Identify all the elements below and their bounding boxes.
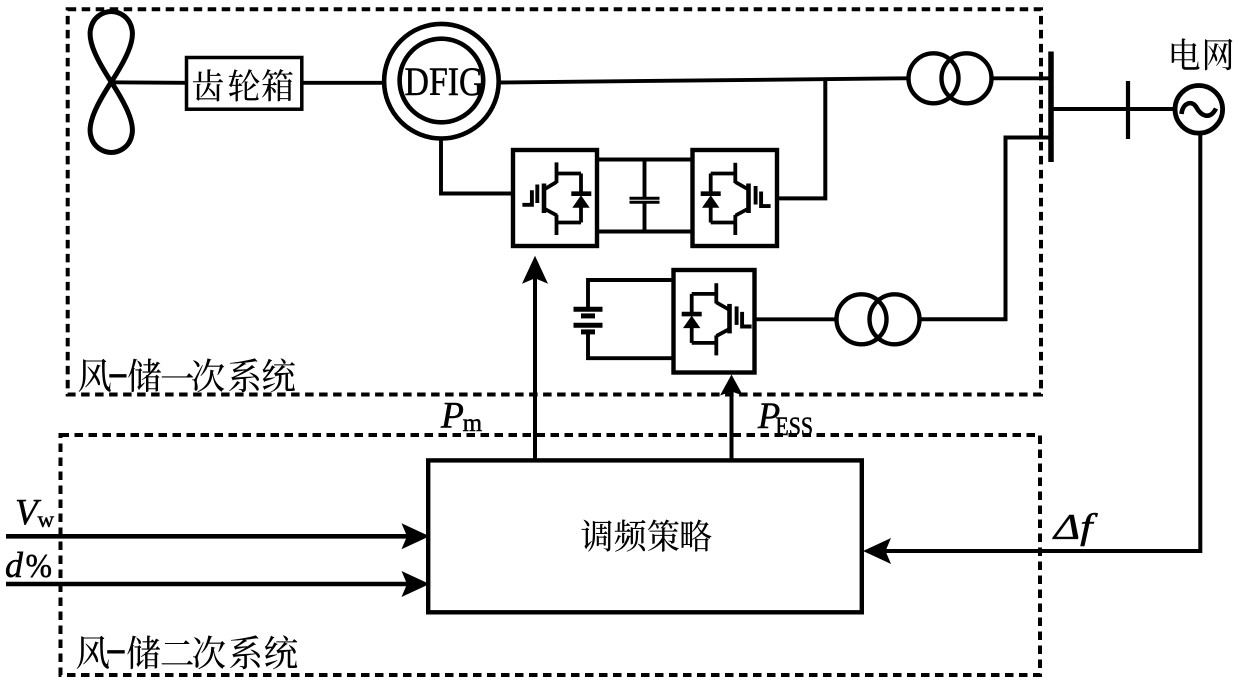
svg-text:w: w [38, 507, 55, 532]
wire V_w input arrow [6, 534, 410, 539]
converter GSC box [693, 150, 778, 246]
wind turbine blades [90, 12, 132, 83]
wire gearbox to DFIG [302, 81, 384, 85]
svg-text:d: d [5, 545, 24, 585]
wire d% input arrow [6, 582, 410, 587]
wire DFIG stator to transformer (main line) [499, 78, 907, 82]
wire Pm arrow [533, 260, 537, 461]
wire turbine shaft to gearbox [111, 80, 186, 84]
wire grid down to delta-f [884, 133, 1200, 551]
top dashed box 风-储一次系统 border [68, 9, 1041, 394]
wire ESS converter to T2 [755, 317, 838, 321]
IGBT in RSC [522, 162, 591, 235]
svg-text:ESS: ESS [775, 412, 813, 441]
svg-text:%: % [26, 548, 53, 585]
wire DC link top [597, 158, 693, 162]
breaker tick [1126, 81, 1130, 139]
dash in 风-储二次系统 [107, 650, 125, 653]
wire T2 up to bus [920, 138, 1050, 320]
battery wire bottom [588, 333, 674, 358]
bottom dashed box 风-储二次系统 border [61, 435, 1041, 675]
generator DFIG inner circle [400, 39, 484, 123]
wire DC link bottom [597, 230, 693, 234]
svg-text:Δf: Δf [1052, 507, 1099, 547]
gearbox box 齿轮箱 [187, 58, 302, 110]
label 齿轮箱 [193, 69, 293, 101]
label 电网 [1172, 38, 1233, 70]
transformer T2 circle B [870, 294, 920, 344]
wire GSC output [777, 79, 825, 198]
wire T1 to bus [992, 76, 1052, 80]
battery wire top [588, 280, 674, 309]
transformer T1 circle A [909, 53, 959, 103]
label 风-储一次系统 [79, 358, 295, 392]
grid sine wave [1182, 103, 1217, 116]
transformer T2 circle A [837, 294, 887, 344]
generator DFIG outer circle [384, 24, 499, 139]
grid source circle [1175, 86, 1223, 134]
arrowhead delta-f into strategy box [863, 538, 891, 564]
dash in 风-储一次系统 [109, 374, 126, 377]
transformer T1 circle B [942, 53, 992, 103]
IGBT in ESS converter [682, 283, 752, 355]
wire DFIG rotor down to RSC [441, 138, 513, 194]
battery cell plates [574, 309, 603, 332]
IGBT in GSC [701, 163, 771, 235]
svg-text:P: P [440, 396, 464, 437]
label 调频策略 [581, 519, 711, 551]
wire P_ESS arrow [730, 378, 734, 461]
svg-text:DFIG: DFIG [405, 59, 484, 104]
wire bus to grid [1051, 107, 1177, 111]
frequency strategy box 调频策略 [428, 460, 862, 612]
label 风-储二次系统 [77, 635, 298, 669]
capacitor DC link [630, 160, 660, 232]
bus bar [1048, 52, 1054, 163]
converter RSC box [513, 150, 597, 246]
svg-text:m: m [463, 410, 483, 437]
converter ESS box [674, 270, 755, 373]
